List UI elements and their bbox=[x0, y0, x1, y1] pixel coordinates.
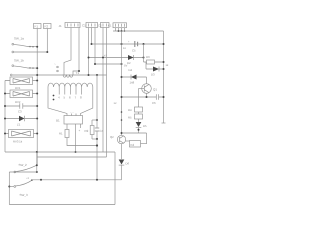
svg-text:~ ~: ~ ~ bbox=[70, 111, 74, 114]
svg-text:F2: F2 bbox=[45, 25, 49, 29]
wire RV1 leads bbox=[5, 80, 37, 82]
transformer tap 6 bbox=[81, 87, 83, 95]
svg-text:SW_3: SW_3 bbox=[20, 193, 29, 197]
diode D3 body bbox=[153, 67, 159, 72]
svg-text:RV3 1k: RV3 1k bbox=[13, 140, 23, 144]
connector K1 bbox=[113, 23, 127, 28]
transistor Q1 collector bbox=[146, 77, 148, 84]
wire net64 bbox=[95, 63, 122, 65]
snubber top wire bbox=[92, 119, 97, 121]
varistor RV3 bowtie bbox=[12, 131, 31, 136]
transformer tap 5 bbox=[75, 87, 77, 95]
node net133 left bbox=[121, 132, 123, 134]
svg-text:R5: R5 bbox=[128, 116, 132, 120]
svg-text:R4: R4 bbox=[128, 108, 132, 112]
wire J1 pin2 down with jog bbox=[64, 28, 71, 76]
svg-text:D6: D6 bbox=[126, 162, 130, 166]
wire snubber drop bbox=[96, 75, 98, 180]
transistor Q1 internals bbox=[144, 85, 149, 93]
rectifier B1 box bbox=[64, 116, 83, 125]
node net97 emitter bbox=[146, 96, 148, 98]
transformer T1 primary winding bbox=[63, 75, 73, 78]
wire net133 bbox=[122, 132, 147, 134]
node net97 right bbox=[163, 96, 165, 98]
node K1 pin2 bbox=[118, 30, 120, 32]
switch SW2 arm bbox=[14, 66, 28, 68]
svg-text:J1: J1 bbox=[59, 24, 63, 28]
svg-text:D2: D2 bbox=[127, 61, 131, 65]
node D1 left bbox=[4, 118, 6, 120]
transistor Q2 internals bbox=[120, 136, 124, 143]
node K1 pin4 bbox=[124, 30, 126, 32]
node net57 at C2a bbox=[102, 57, 104, 59]
node net77 left bbox=[121, 76, 123, 78]
wire K2 right up bbox=[141, 133, 147, 144]
diode D6 body bbox=[119, 160, 125, 165]
resistor R3 body bbox=[147, 60, 155, 64]
fuse F1 bbox=[34, 24, 42, 29]
varistor RV2 box bbox=[10, 90, 33, 98]
node SW1 arm junction bbox=[36, 46, 38, 48]
switch SW1 arm tip dots bbox=[29, 46, 30, 47]
node rail small a bbox=[121, 111, 123, 113]
svg-text:5V: 5V bbox=[124, 64, 128, 68]
svg-text:Q2: Q2 bbox=[110, 135, 114, 139]
node net57 left bbox=[88, 57, 90, 59]
diode D5 body bbox=[136, 122, 142, 127]
node net97 left bbox=[121, 96, 123, 98]
wire base drop bbox=[138, 89, 140, 108]
svg-text:SW_1b: SW_1b bbox=[14, 59, 24, 63]
node net44 at C1b bbox=[91, 43, 93, 45]
capacitor C3 plates bbox=[20, 103, 23, 109]
node net57 right bbox=[143, 57, 145, 59]
resistor R5 body bbox=[135, 114, 143, 119]
wire F2 lead down bbox=[46, 29, 48, 53]
transistor Q1 emitter wire bbox=[146, 93, 148, 97]
node net44 right bbox=[163, 43, 165, 45]
svg-text:1k: 1k bbox=[166, 64, 169, 67]
wire RV2 leads bbox=[5, 93, 37, 95]
wire left rail of right block bbox=[121, 31, 123, 135]
capacitor C1 box bbox=[86, 23, 98, 28]
node SW2 arm junction bbox=[36, 67, 38, 69]
diode D4 bar bbox=[130, 75, 132, 80]
node SW3 arm junction bbox=[36, 164, 38, 166]
svg-text:~: ~ bbox=[54, 62, 56, 66]
switch SW2 contact terminal bbox=[10, 74, 12, 76]
node net152 at rail bbox=[36, 151, 38, 153]
wire C1 pin a down bbox=[88, 28, 90, 76]
node C3 right bbox=[36, 105, 38, 107]
diode D5 bar bbox=[136, 127, 142, 129]
node R3 right bbox=[163, 61, 165, 63]
node snubber top bbox=[96, 119, 98, 121]
diode D3 bar bbox=[158, 67, 160, 72]
wire SW3 pole line bbox=[9, 171, 37, 173]
svg-text:C6: C6 bbox=[152, 101, 156, 105]
fuse F2 bbox=[44, 24, 52, 29]
wire net152 drop right bbox=[114, 152, 116, 205]
varistor RV1 box bbox=[10, 77, 33, 85]
transformer tap 2 bbox=[58, 87, 60, 95]
wire RV3 leads bbox=[5, 133, 37, 135]
node RV2 right bbox=[36, 93, 38, 95]
diode D1 bar bbox=[24, 116, 26, 122]
svg-text:+: + bbox=[128, 40, 130, 44]
varistor RV3 box bbox=[9, 130, 34, 138]
svg-text:K2: K2 bbox=[131, 143, 135, 147]
resistor R1 body bbox=[65, 130, 69, 138]
node RV2 left bbox=[4, 93, 6, 95]
wire net97 right bbox=[154, 96, 164, 98]
node net180 a bbox=[40, 179, 42, 181]
diode D1 body bbox=[19, 116, 25, 122]
connector K1 pins bbox=[116, 24, 125, 27]
wire net152 bbox=[5, 151, 115, 153]
wire C2 pin a down bbox=[102, 28, 104, 153]
svg-text:5: 5 bbox=[64, 96, 66, 100]
node contact bus at C1a bbox=[88, 74, 90, 76]
transformer tap 4 bbox=[69, 87, 71, 95]
svg-text:+: + bbox=[79, 129, 81, 133]
svg-text:148: 148 bbox=[130, 81, 135, 85]
capacitor C4 plates bbox=[95, 128, 99, 131]
svg-text:D4: D4 bbox=[129, 68, 133, 72]
svg-text:R3: R3 bbox=[146, 55, 150, 59]
capacitor C2 box bbox=[101, 23, 110, 28]
rectifier B1 bottom pin 1 wire bbox=[66, 124, 68, 130]
switch SW3 arm bbox=[16, 166, 36, 172]
transistor Q2 body bbox=[117, 135, 125, 143]
capacitor C3 leads bbox=[5, 105, 37, 107]
wire rail to SW3 bbox=[36, 152, 38, 172]
wire net77 bbox=[122, 76, 147, 78]
svg-text:c2: c2 bbox=[27, 177, 30, 180]
transformer T1 secondary winding bbox=[48, 83, 93, 87]
svg-text:47: 47 bbox=[104, 55, 107, 58]
node D3 right bbox=[163, 68, 165, 70]
node contact bus at rail bbox=[36, 74, 38, 76]
node C3 left bbox=[4, 105, 6, 107]
node RV3 left bbox=[4, 133, 6, 135]
wire net44 bbox=[92, 43, 164, 45]
relay K2 box bbox=[130, 141, 141, 148]
resistor R3 leads bbox=[144, 61, 164, 63]
right rail end tick bbox=[162, 122, 166, 124]
wire R1 to bottom bus bbox=[67, 138, 97, 146]
svg-text:D5: D5 bbox=[143, 124, 147, 128]
rectifier B1 bottom pin 3 stub bbox=[80, 124, 82, 128]
svg-text:SW_2: SW_2 bbox=[19, 163, 28, 167]
svg-text:C2: C2 bbox=[98, 24, 102, 28]
connector J1 bbox=[65, 23, 80, 28]
snubber bottom wire bbox=[92, 138, 97, 140]
node pin2 at H152 bbox=[75, 151, 77, 153]
node net44 at left rail bbox=[121, 43, 123, 45]
svg-text:6: 6 bbox=[69, 96, 71, 100]
wire Q2 emitter down bbox=[121, 144, 123, 159]
wire net157 bbox=[37, 156, 107, 158]
switch SW1 arm bbox=[14, 44, 28, 46]
node net64 left bbox=[94, 63, 96, 65]
capacitor C4 leads bbox=[96, 120, 98, 139]
wire R4 to R5 bbox=[138, 112, 140, 114]
diode D4 body bbox=[131, 75, 137, 80]
wire net57 bbox=[89, 57, 144, 59]
svg-text:F1: F1 bbox=[35, 25, 39, 29]
node bus at snubber riser bbox=[96, 74, 98, 76]
capacitor C5 plates bbox=[135, 41, 138, 47]
resistor R2 body bbox=[90, 126, 94, 135]
svg-text:4: 4 bbox=[58, 96, 60, 100]
wire SW1 arm to F1 lead bbox=[28, 46, 38, 48]
node rail at y172 bbox=[36, 171, 38, 173]
rectifier B1 bottom pin 2 wire bbox=[75, 124, 77, 152]
relay K2 stub left bbox=[125, 140, 129, 142]
node RV1 right bbox=[36, 80, 38, 82]
switch SW2 arm tip dots bbox=[29, 67, 30, 68]
varistor RV1 bowtie bbox=[13, 79, 30, 84]
switch SW2 pole bbox=[12, 65, 14, 67]
capacitor C2 inner pins bbox=[103, 24, 107, 27]
wire SW4 pole line bbox=[9, 186, 14, 188]
diode D2 body bbox=[128, 55, 134, 60]
wire ladder left rail bbox=[4, 81, 6, 153]
wire R5 to D5 bbox=[138, 119, 140, 122]
varistor RV2 bowtie bbox=[13, 92, 30, 97]
transformer polarity dots bbox=[53, 95, 55, 97]
svg-text:T1: T1 bbox=[76, 71, 80, 75]
svg-text:12: 12 bbox=[114, 102, 117, 105]
wire J1 pin4 down bbox=[73, 28, 79, 76]
svg-text:16: 16 bbox=[123, 47, 126, 50]
node D1 right bbox=[36, 118, 38, 120]
wire C1 pin b down bbox=[91, 28, 93, 45]
wire right rail down bbox=[163, 31, 165, 123]
transformer tap 3 bbox=[64, 87, 66, 95]
AC terminal circles bbox=[57, 66, 59, 68]
svg-text:Q1: Q1 bbox=[153, 88, 157, 92]
switch SW4 arm bbox=[16, 180, 32, 186]
wire F1 lead down bbox=[36, 29, 38, 166]
node K1 pin3 bbox=[121, 30, 123, 32]
wire D3 left link bbox=[145, 62, 147, 69]
svg-text:R2: R2 bbox=[85, 129, 89, 133]
wire link 44-62 bbox=[143, 44, 145, 62]
wire top bus to right rail bbox=[113, 30, 164, 32]
transistor Q1 body bbox=[142, 84, 152, 94]
diode D2 bar bbox=[133, 55, 135, 60]
wire D6 to net180 bbox=[121, 165, 123, 180]
connector J1 pins bbox=[68, 24, 79, 27]
switch SW4 arm tip dot bbox=[31, 179, 33, 181]
resistor R4 body bbox=[135, 107, 143, 112]
svg-text:SW_1a: SW_1a bbox=[14, 37, 24, 41]
wire net97 left bbox=[122, 96, 154, 98]
node net180 b bbox=[96, 179, 98, 181]
node RV3 right bbox=[36, 133, 38, 135]
wire bottom rail bbox=[9, 204, 115, 206]
svg-text:Z1: Z1 bbox=[17, 123, 21, 127]
svg-text:R1: R1 bbox=[59, 132, 63, 136]
diode D3 leads bbox=[146, 68, 164, 70]
wire SW2 arm to rail bbox=[28, 67, 38, 69]
svg-text:C3: C3 bbox=[18, 110, 22, 114]
wire left bracket bbox=[8, 172, 10, 205]
switch SW4 pole bbox=[14, 186, 16, 188]
svg-text:K1: K1 bbox=[108, 24, 112, 28]
node snubber at bus146 bbox=[96, 144, 98, 146]
wire K1 pins to bus bbox=[116, 28, 125, 31]
node bracket mid bbox=[8, 186, 10, 188]
wire net180 bbox=[32, 179, 122, 181]
svg-text:C5: C5 bbox=[132, 49, 136, 53]
node rail small b bbox=[121, 119, 123, 121]
wire SW1 contact line bbox=[14, 51, 48, 53]
wire C1 pin c down bbox=[94, 28, 96, 65]
switch SW1 contact terminal bbox=[12, 51, 14, 53]
node net64 right bbox=[121, 63, 123, 65]
svg-text:8: 8 bbox=[80, 96, 82, 100]
node D5 bottom bbox=[138, 129, 140, 131]
node snubber bottom bbox=[96, 138, 98, 140]
resistor R2 leads bbox=[91, 120, 93, 139]
wire D5 down bbox=[138, 128, 140, 133]
svg-text:D3: D3 bbox=[151, 73, 155, 77]
svg-text:RV1: RV1 bbox=[15, 86, 21, 90]
switch SW3 pole bbox=[14, 171, 16, 173]
wire C2 pin b down bbox=[106, 28, 108, 158]
diode D6 bar bbox=[119, 164, 125, 166]
node on J1 pin4 wire bbox=[78, 70, 80, 72]
wire secondary left lead bbox=[48, 87, 67, 116]
wire SW2 contact bus bbox=[13, 74, 107, 76]
wire secondary right lead bbox=[81, 87, 93, 116]
transistor Q1 base wire bbox=[139, 88, 145, 90]
rectifier B1 top pins bbox=[72, 114, 77, 116]
svg-text:C4: C4 bbox=[100, 129, 104, 133]
svg-text:B1: B1 bbox=[56, 119, 60, 123]
node net44 mid bbox=[143, 43, 145, 45]
node SW1 contact junction bbox=[46, 51, 48, 53]
switch SW1 pole bbox=[12, 43, 14, 45]
svg-text:7: 7 bbox=[75, 96, 77, 100]
capacitor C1 inner pins bbox=[89, 24, 96, 27]
diode D1 leads bbox=[5, 118, 37, 120]
svg-text:C1: C1 bbox=[82, 24, 86, 28]
capacitor C6 plates bbox=[156, 94, 158, 99]
